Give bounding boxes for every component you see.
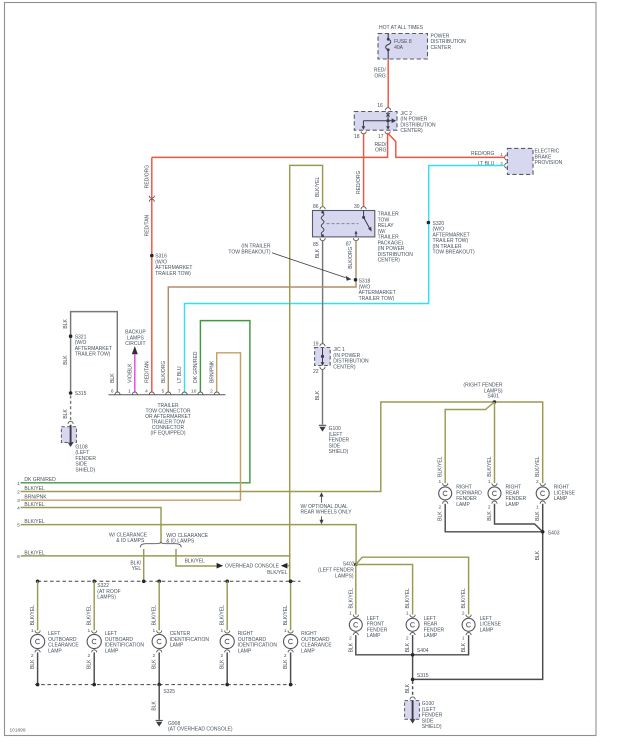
svg-text:LAMP: LAMP	[480, 627, 494, 633]
lamp LEFT OUTBOARD IDENTIFICATION LAMP	[87, 580, 145, 687]
svg-text:2: 2	[210, 389, 213, 395]
svg-text:VIO/BLK: VIO/BLK	[127, 363, 133, 383]
wire RED/TAN trailer connector pin 4	[151, 157, 153, 392]
svg-text:LAMP: LAMP	[238, 648, 252, 654]
svg-text:CENTER): CENTER)	[378, 258, 401, 264]
lamp LEFT OUTBOARD CLEARANCE LAMP	[30, 580, 79, 687]
pin 1 electric brake	[505, 155, 508, 160]
pin 18	[361, 131, 366, 134]
wire BLK/YEL w/ clearance branch to roof lamp bus	[143, 549, 145, 581]
relay pin 30	[361, 207, 366, 210]
svg-text:BLK/YEL: BLK/YEL	[461, 588, 467, 609]
svg-text:2: 2	[406, 636, 409, 642]
svg-text:CENTER): CENTER)	[333, 364, 356, 370]
svg-text:1: 1	[88, 628, 91, 634]
svg-text:(IF EQUIPPED): (IF EQUIPPED)	[150, 431, 185, 437]
svg-text:BLK: BLK	[535, 511, 541, 521]
relay trailer tow box	[313, 211, 375, 237]
svg-text:BLK: BLK	[110, 373, 116, 383]
svg-text:LAMP: LAMP	[367, 633, 381, 639]
inline connector to G100	[410, 697, 415, 700]
wire BLK right rear fender lamp to S403	[495, 504, 543, 532]
svg-text:ORG: ORG	[374, 73, 386, 79]
svg-text:1: 1	[128, 389, 131, 395]
svg-text:BLK/ORG: BLK/ORG	[161, 361, 167, 383]
svg-text:BLK: BLK	[405, 683, 411, 693]
svg-text:BLK: BLK	[30, 659, 36, 669]
svg-text:BLK: BLK	[315, 390, 321, 400]
trailer connector pin 10 DK GRN/RED	[198, 392, 203, 395]
wire LT BLU brake to trailer connector pin 7	[185, 166, 505, 393]
svg-text:BRN/PNK: BRN/PNK	[209, 360, 215, 383]
svg-text:3: 3	[17, 498, 20, 504]
svg-text:TRAILER TOW): TRAILER TOW)	[359, 296, 395, 302]
svg-text:1: 1	[153, 628, 156, 634]
svg-text:LAMP: LAMP	[301, 648, 315, 654]
trailer tow connector baseline	[109, 394, 226, 396]
svg-text:BLK/YEL: BLK/YEL	[487, 456, 493, 477]
wire BLK dashed S315 to G100	[412, 681, 414, 697]
svg-text:DK GRN/RED: DK GRN/RED	[193, 351, 199, 383]
svg-text:OVERHEAD CONSOLE: OVERHEAD CONSOLE	[225, 563, 280, 569]
wire BLK/YEL overhead console return	[287, 565, 290, 567]
wire BLK J/C1 to G100	[322, 369, 324, 424]
svg-text:16: 16	[377, 103, 383, 109]
svg-text:2: 2	[153, 653, 156, 659]
relay pin 86	[320, 207, 325, 210]
svg-text:CENTER: CENTER	[431, 45, 452, 51]
wire BLK right forward fender lamp to S403	[445, 504, 541, 532]
ground G908 (at overhead console)	[156, 720, 163, 726]
relay pin 87	[353, 238, 358, 241]
wire BLK trailer connector pin 6 to G108	[71, 312, 118, 394]
svg-text:RED/ORG: RED/ORG	[471, 151, 494, 157]
svg-text:LT BLU: LT BLU	[177, 366, 183, 383]
pin 2 electric brake	[505, 163, 508, 168]
svg-text:S402: S402	[343, 561, 355, 567]
trailer connector pin 1 VIO/BLK	[132, 392, 137, 395]
wire BLK S325 to G908	[158, 685, 160, 720]
ground G100 box (left fender side shield)	[405, 700, 420, 723]
wire VIO/BLK to trailer connector pin 1	[134, 354, 136, 392]
svg-text:BLK/ORG: BLK/ORG	[348, 246, 354, 268]
svg-text:2: 2	[31, 653, 34, 659]
svg-text:BLK/YEL: BLK/YEL	[30, 605, 36, 626]
wire BLK right license lamp through S403 to S315	[414, 504, 543, 680]
svg-text:RED/TAN: RED/TAN	[144, 361, 150, 383]
svg-text:BLK: BLK	[438, 511, 444, 521]
svg-text:BLK/YEL: BLK/YEL	[438, 456, 444, 477]
svg-text:1: 1	[31, 628, 34, 634]
svg-text:2: 2	[17, 490, 20, 496]
svg-text:1: 1	[17, 481, 20, 487]
svg-text:7: 7	[178, 389, 181, 395]
svg-text:CENTER): CENTER)	[400, 128, 423, 134]
svg-text:BLK/YEL: BLK/YEL	[535, 456, 541, 477]
svg-text:S315: S315	[75, 391, 87, 397]
svg-text:S404: S404	[417, 648, 429, 654]
svg-text:RED/ORG: RED/ORG	[356, 171, 362, 194]
svg-text:BLK: BLK	[283, 659, 289, 669]
trailer connector pin 4 RED/TAN	[149, 392, 154, 395]
svg-text:BLK/YEL: BLK/YEL	[405, 588, 411, 609]
dual wheels arrow down	[321, 516, 323, 520]
svg-text:BLK: BLK	[220, 659, 226, 669]
svg-text:2: 2	[462, 611, 465, 617]
ground G100 (left fender side shield)	[319, 425, 326, 431]
svg-text:10: 10	[191, 389, 197, 395]
svg-text:TOW BREAKOUT): TOW BREAKOUT)	[228, 249, 270, 255]
wire RED/ORG J/C2 pin 17 branch	[152, 133, 388, 158]
svg-text:S315: S315	[417, 673, 429, 679]
svg-text:2: 2	[536, 479, 539, 485]
svg-text:REAR WHEELS ONLY: REAR WHEELS ONLY	[301, 510, 353, 516]
svg-text:101899: 101899	[10, 728, 26, 734]
inline connector to G108	[68, 421, 73, 424]
svg-text:S325: S325	[163, 689, 175, 695]
roof lamps feed bus dashed	[38, 580, 301, 582]
svg-text:LAMP: LAMP	[48, 648, 62, 654]
svg-text:1: 1	[488, 479, 491, 485]
svg-text:5: 5	[162, 389, 165, 395]
svg-text:LAMPS): LAMPS)	[335, 573, 354, 579]
wire BLK relay pin 85 to J/C1	[322, 241, 324, 344]
junction w/ clearance branch on bus	[142, 580, 146, 584]
wire BRN/PNK circuit 3 to trailer connector pin 2	[21, 353, 241, 500]
roof lamps ground bus dashed	[35, 684, 296, 686]
svg-text:BLK: BLK	[87, 659, 93, 669]
svg-text:BLK: BLK	[487, 511, 493, 521]
wire BLK/YEL circuit 4 to roof lamp braces	[21, 508, 161, 543]
J/C1 pin 22	[320, 367, 325, 370]
splice S321	[69, 334, 73, 338]
electric brake provision connector	[507, 148, 533, 174]
svg-text:2: 2	[500, 161, 503, 167]
svg-text:1: 1	[439, 479, 442, 485]
wire RED/ORG J/C2 pin 18 to relay pin 30	[363, 133, 365, 207]
lamp RIGHT OUTBOARD CLEARANCE LAMP	[283, 580, 332, 687]
splice S401	[493, 400, 497, 404]
J/C1 pin 19	[320, 344, 325, 347]
svg-text:86: 86	[313, 204, 319, 210]
svg-text:40A: 40A	[394, 45, 404, 51]
lamp LEFT FRONT FENDER LAMP	[348, 588, 387, 652]
junction overhead console branch on bus	[289, 580, 293, 584]
svg-text:BLK: BLK	[535, 550, 541, 560]
arrow from overhead console	[281, 563, 288, 569]
svg-text:CIRCUIT: CIRCUIT	[125, 341, 145, 347]
power distribution center fuse box	[378, 34, 428, 60]
wire BLK/YEL circuit 5 to S402	[21, 525, 357, 565]
svg-text:HOT AT ALL TIMES: HOT AT ALL TIMES	[379, 25, 424, 31]
svg-text:2: 2	[221, 653, 224, 659]
svg-text:BLK: BLK	[348, 642, 354, 652]
svg-text:2: 2	[88, 653, 91, 659]
svg-text:2: 2	[284, 653, 287, 659]
pin 17	[385, 131, 390, 134]
wire BLK/YEL circuit 2 to right fender lamps	[21, 402, 543, 492]
svg-text:22: 22	[313, 369, 319, 375]
relay switch	[354, 211, 371, 237]
svg-text:RED/TAN: RED/TAN	[144, 214, 150, 236]
J/C2 internal bus	[362, 112, 397, 130]
svg-text:SHIELD): SHIELD)	[75, 467, 95, 473]
svg-text:PROVISION: PROVISION	[535, 160, 563, 166]
backup lamps circuit arrow	[132, 346, 138, 354]
svg-text:DK GRN/RED: DK GRN/RED	[24, 477, 56, 483]
junction block J/C1	[315, 348, 331, 366]
wire BLK/YEL S401 to right rear fender lamp	[494, 402, 496, 483]
svg-text:BLK: BLK	[63, 355, 69, 365]
svg-text:BLK/YEL: BLK/YEL	[185, 558, 206, 564]
wire BLK/YEL w/o clearance branch to overhead console	[176, 549, 217, 566]
svg-text:TRAILER TOW): TRAILER TOW)	[155, 271, 191, 277]
fuse F8 element	[386, 34, 391, 60]
svg-text:85: 85	[313, 242, 319, 248]
splice S315	[411, 678, 415, 682]
wire BLK/YEL S402 to left rear fender lamp	[356, 565, 413, 615]
svg-text:BLK: BLK	[63, 408, 69, 418]
lamp LEFT LICENSE LAMP	[461, 588, 502, 652]
svg-text:2: 2	[488, 504, 491, 510]
lamp RIGHT FORWARD FENDER LAMP	[438, 456, 482, 521]
svg-text:SHIELD): SHIELD)	[422, 724, 442, 730]
wire RED/ORG fuse to J/C2 pin 16	[387, 59, 389, 107]
wire BLK/ORG relay pin 87 to trailer connector pin 5	[168, 241, 356, 393]
splice S320	[427, 221, 431, 225]
svg-text:19: 19	[313, 341, 319, 347]
svg-text:BLK: BLK	[461, 642, 467, 652]
lamp RIGHT LICENSE LAMP	[535, 456, 576, 521]
svg-text:BLK: BLK	[405, 642, 411, 652]
svg-text:BLK: BLK	[315, 248, 321, 258]
svg-text:TRAILER TOW): TRAILER TOW)	[75, 352, 111, 358]
lamp CENTER IDENTIFICATION LAMP	[152, 580, 210, 687]
svg-text:(AT OVERHEAD CONSOLE): (AT OVERHEAD CONSOLE)	[168, 727, 233, 733]
splice S403	[541, 530, 545, 534]
svg-text:6: 6	[111, 389, 114, 395]
svg-text:BLK/YEL: BLK/YEL	[87, 605, 93, 626]
svg-text:1: 1	[406, 611, 409, 617]
arrow to overhead console	[217, 563, 224, 569]
wire BLK left fender lamps bus	[356, 635, 469, 655]
ground G108 box (left fender side shield)	[61, 425, 76, 447]
inline connector C-body	[149, 196, 154, 199]
J/C1 internal bus	[321, 348, 325, 366]
relay coil	[321, 211, 324, 237]
svg-text:1: 1	[221, 628, 224, 634]
relay link dashed	[327, 223, 359, 225]
wire DK GRN/RED circuit 1 to trailer connector pin 10	[21, 321, 250, 483]
svg-text:4: 4	[145, 389, 148, 395]
dual wheels arrow up	[321, 496, 323, 503]
svg-text:LAMP: LAMP	[554, 496, 568, 502]
svg-text:SHIELD): SHIELD)	[329, 449, 349, 455]
splice S402	[354, 563, 358, 567]
svg-text:1: 1	[349, 611, 352, 617]
svg-text:1: 1	[536, 504, 539, 510]
svg-text:BLK/YEL: BLK/YEL	[267, 570, 288, 576]
svg-text:18: 18	[354, 134, 360, 140]
wire BLK/YEL S402 to left front fender lamp	[355, 565, 357, 615]
svg-text:BLK/YEL: BLK/YEL	[348, 588, 354, 609]
svg-text:LAMP: LAMP	[105, 648, 119, 654]
svg-text:5: 5	[17, 523, 20, 529]
wire BLK/YEL relay pin 86 loop	[290, 165, 323, 581]
brace option split	[140, 542, 181, 548]
svg-text:BLK/YEL: BLK/YEL	[152, 605, 158, 626]
svg-text:17: 17	[378, 134, 384, 140]
trailer connector pin 5 BLK/ORG	[166, 392, 171, 395]
svg-text:LAMP: LAMP	[506, 502, 520, 508]
lamp RIGHT OUTBOARD IDENTIFICATION LAMP	[220, 580, 278, 687]
svg-text:LAMP: LAMP	[424, 633, 438, 639]
svg-text:& ID LAMPS: & ID LAMPS	[116, 538, 145, 544]
relay pin 85	[320, 238, 325, 241]
svg-text:BLK/YEL: BLK/YEL	[315, 176, 321, 197]
svg-text:2: 2	[439, 504, 442, 510]
svg-text:30: 30	[354, 204, 360, 210]
trailer connector pin 7 LT BLU	[182, 392, 187, 395]
trailer connector pin 2 BRN/PNK	[214, 392, 219, 395]
lamp RIGHT REAR FENDER LAMP	[487, 456, 526, 521]
svg-text:BLK: BLK	[152, 659, 158, 669]
svg-text:BLK: BLK	[63, 318, 69, 328]
svg-text:ORG: ORG	[375, 148, 387, 154]
wire BLK/YEL circuit 6	[21, 555, 291, 557]
svg-text:1: 1	[284, 628, 287, 634]
wire BLK left rear fender lamp through S404 to S315	[412, 635, 414, 679]
svg-text:S401: S401	[487, 393, 499, 399]
lamp LEFT REAR FENDER LAMP	[405, 588, 444, 652]
splice S316	[150, 254, 154, 258]
junction block J/C2	[354, 112, 397, 131]
wire BLK dashed S315 to G108	[70, 396, 72, 421]
splice S315	[69, 391, 73, 395]
wire BLK/YEL S402 to left license lamp	[356, 557, 469, 614]
svg-text:6: 6	[17, 554, 20, 560]
svg-text:1: 1	[462, 636, 465, 642]
svg-text:RED/ORG: RED/ORG	[144, 165, 150, 188]
wire BLK/YEL S401 to right forward fender lamp	[445, 402, 494, 483]
svg-text:BRN/PNK: BRN/PNK	[24, 495, 47, 501]
svg-text:2: 2	[349, 636, 352, 642]
splice S404	[411, 653, 415, 657]
svg-text:TOW BREAKOUT): TOW BREAKOUT)	[433, 250, 475, 256]
svg-text:YEL: YEL	[132, 566, 142, 572]
splice S318	[354, 278, 358, 282]
svg-text:LAMP: LAMP	[170, 643, 184, 649]
svg-text:LAMPS): LAMPS)	[97, 595, 116, 601]
svg-text:S403: S403	[548, 530, 560, 536]
svg-text:LAMP: LAMP	[456, 502, 470, 508]
svg-text:BLK/YEL: BLK/YEL	[220, 605, 226, 626]
svg-text:BLK: BLK	[152, 700, 158, 710]
svg-text:4: 4	[17, 506, 20, 512]
trailer connector pin 6 BLK	[115, 392, 120, 395]
svg-text:BLK/YEL: BLK/YEL	[283, 605, 289, 626]
